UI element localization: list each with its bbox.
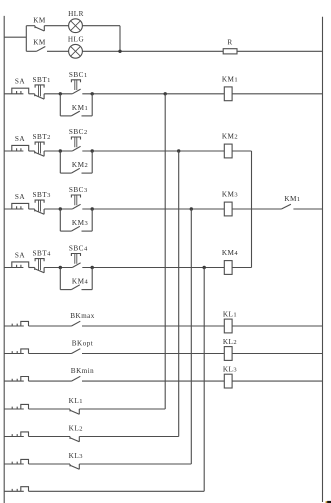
- svg-text:SBT3: SBT3: [32, 191, 50, 199]
- svg-text:KL2: KL2: [223, 338, 237, 346]
- svg-text:SBC4: SBC4: [69, 245, 88, 253]
- svg-text:KM1: KM1: [284, 195, 300, 203]
- svg-text:KM1: KM1: [72, 104, 88, 112]
- svg-text:SBC1: SBC1: [69, 71, 88, 79]
- svg-text:KL2: KL2: [69, 425, 83, 433]
- svg-text:SBT1: SBT1: [32, 76, 50, 84]
- svg-text:KM: KM: [33, 39, 46, 47]
- svg-text:HLR: HLR: [68, 10, 84, 18]
- svg-text:KM4: KM4: [222, 249, 239, 257]
- svg-text:BKmin: BKmin: [71, 367, 94, 375]
- svg-text:KL1: KL1: [69, 397, 83, 405]
- svg-text:KM3: KM3: [222, 191, 238, 199]
- svg-text:HLG: HLG: [68, 36, 84, 44]
- svg-text:SBC3: SBC3: [69, 186, 88, 194]
- svg-text:KL3: KL3: [223, 366, 237, 374]
- svg-text:KM2: KM2: [222, 133, 238, 141]
- svg-text:SBC2: SBC2: [69, 128, 88, 136]
- svg-text:KM4: KM4: [72, 278, 89, 286]
- svg-text:SBT2: SBT2: [32, 133, 50, 141]
- svg-text:BKmax: BKmax: [70, 312, 95, 320]
- svg-text:SA: SA: [15, 78, 25, 86]
- svg-text:SA: SA: [15, 193, 25, 201]
- svg-text:KL1: KL1: [223, 311, 237, 319]
- svg-text:KM2: KM2: [72, 161, 88, 169]
- svg-text:SA: SA: [15, 251, 25, 259]
- svg-text:KL3: KL3: [69, 452, 83, 460]
- svg-text:SA: SA: [15, 135, 25, 143]
- svg-text:R: R: [227, 38, 232, 46]
- svg-text:KM3: KM3: [72, 219, 88, 227]
- svg-text:KM1: KM1: [222, 75, 238, 83]
- svg-text:SBT4: SBT4: [32, 250, 51, 258]
- svg-text:BKopt: BKopt: [72, 340, 93, 348]
- svg-text:KM: KM: [33, 16, 46, 24]
